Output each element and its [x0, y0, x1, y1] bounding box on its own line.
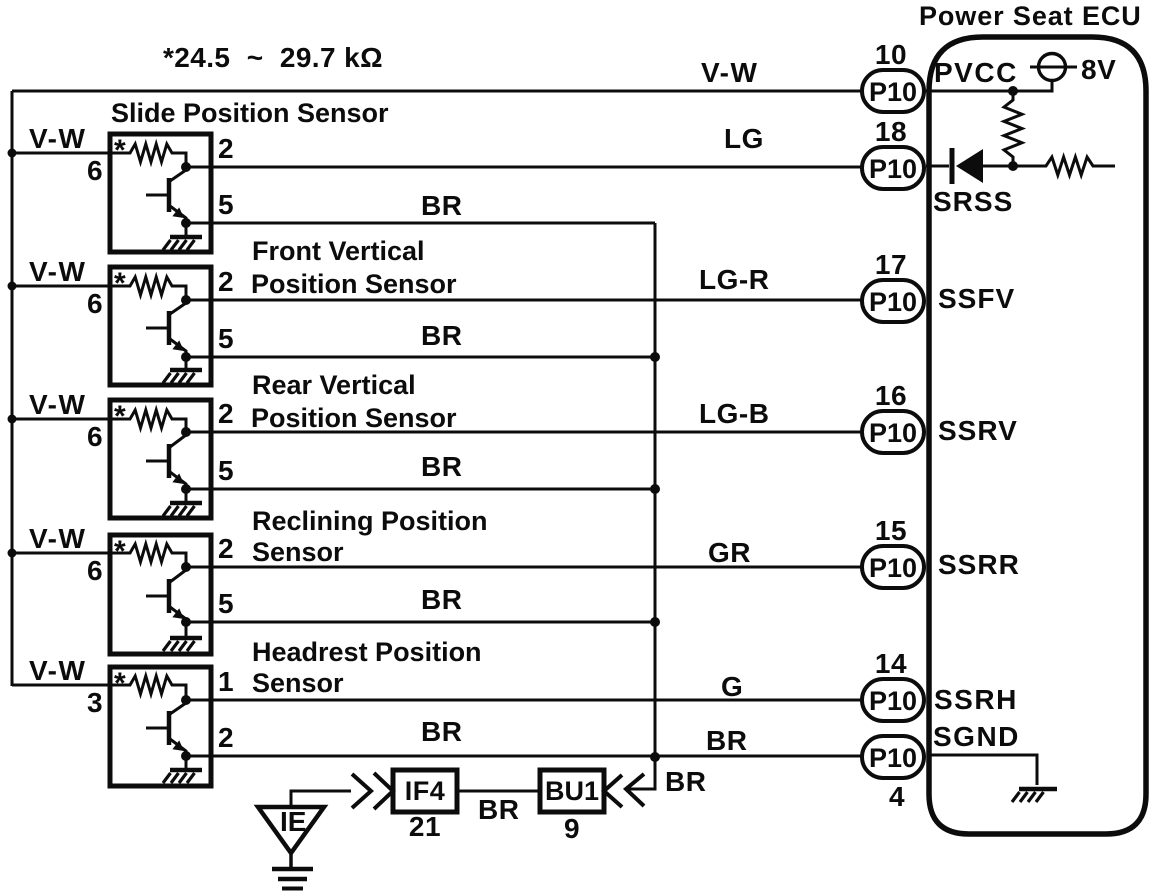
svg-text:BR: BR	[421, 320, 462, 351]
svg-text:5: 5	[218, 189, 234, 220]
svg-text:P10: P10	[869, 287, 917, 317]
svg-text:SSRV: SSRV	[938, 415, 1018, 446]
wire V-W supply bus top	[12, 90, 862, 93]
reclining position sensor box	[110, 535, 211, 654]
front vertical position sensor box	[110, 267, 211, 385]
svg-text:Rear Vertical: Rear Vertical	[252, 370, 416, 400]
connector P10 pin 10	[862, 70, 924, 112]
junction dot pin 5 of slide position sensor	[181, 218, 191, 228]
wiper transistor symbol in reclining position sensor	[146, 570, 186, 622]
potentiometer resistor in front vertical position sensor	[110, 277, 186, 300]
svg-text:2: 2	[218, 398, 234, 429]
svg-text:P10: P10	[869, 77, 917, 107]
wire pin 5 output of front vertical position sensor	[186, 356, 655, 359]
junction connector IF4	[393, 770, 457, 812]
slide position sensor box	[110, 134, 211, 252]
wire pin 1 output of headrest position sensor	[186, 699, 862, 702]
svg-text:2: 2	[218, 722, 234, 753]
wire pin 2 output of reclining position sensor	[186, 566, 862, 569]
svg-text:Position Sensor: Position Sensor	[251, 403, 457, 433]
internal ground of slide position sensor	[185, 223, 188, 236]
wiper transistor symbol in front vertical position sensor	[146, 303, 186, 357]
svg-text:Position Sensor: Position Sensor	[251, 269, 457, 299]
svg-text:SGND: SGND	[933, 721, 1020, 752]
svg-text:BR: BR	[706, 725, 747, 756]
earth ground symbol under IE	[289, 853, 293, 867]
svg-text:Reclining Position: Reclining Position	[252, 506, 488, 536]
svg-text:8V: 8V	[1081, 54, 1116, 85]
internal ground of reclining position sensor	[185, 622, 188, 637]
svg-text:5: 5	[218, 323, 234, 354]
svg-text:*24.5 ~ 29.7 kΩ: *24.5 ~ 29.7 kΩ	[163, 42, 383, 73]
svg-text:V-W: V-W	[701, 57, 758, 88]
junction dot on BR bus	[650, 617, 660, 627]
svg-text:1: 1	[218, 666, 234, 697]
svg-text:P10: P10	[869, 743, 917, 773]
svg-text:SSRH: SSRH	[934, 684, 1018, 715]
series resistor inside ECU	[1013, 157, 1115, 175]
wire SRSS line	[926, 165, 949, 168]
wire PVCC to 8V source	[925, 80, 1052, 91]
svg-text:2: 2	[218, 266, 234, 297]
svg-text:LG-B: LG-B	[699, 398, 769, 429]
pull-up resistor inside ECU	[1004, 91, 1022, 166]
junction dot on left bus at sensor 1	[8, 149, 17, 158]
svg-text:P10: P10	[869, 418, 917, 448]
potentiometer resistor in slide position sensor	[110, 144, 186, 167]
svg-text:18: 18	[875, 116, 907, 147]
svg-text:GR: GR	[708, 537, 751, 568]
wiper transistor symbol in rear vertical position sensor	[146, 435, 186, 489]
connector P10 pin 4	[862, 736, 924, 778]
svg-text:Sensor: Sensor	[252, 537, 344, 567]
svg-text:P10: P10	[869, 686, 917, 716]
svg-text:16: 16	[875, 380, 907, 411]
wire pin 2 output of front vertical position sensor	[186, 299, 862, 302]
svg-text:5: 5	[218, 455, 234, 486]
svg-text:17: 17	[875, 249, 907, 280]
svg-text:V-W: V-W	[29, 256, 86, 287]
svg-text:SSRR: SSRR	[938, 549, 1020, 580]
svg-text:BR: BR	[665, 766, 706, 797]
svg-text:BR: BR	[421, 190, 462, 221]
junction dot pin 2 of front vertical position sensor	[181, 295, 191, 305]
svg-text:G: G	[721, 671, 743, 702]
junction dot on BR bus	[650, 752, 660, 762]
svg-text:21: 21	[409, 811, 441, 842]
svg-text:*: *	[114, 267, 126, 300]
internal ground of front vertical position sensor	[185, 357, 188, 369]
junction dot on left bus at sensor 2	[8, 282, 17, 291]
junction dot pin 2 of reclining position sensor	[181, 562, 191, 572]
wire V-W branch to front vertical position sensor	[12, 285, 110, 288]
svg-text:*: *	[114, 134, 126, 167]
svg-text:BR: BR	[421, 584, 462, 615]
diode SRSS	[950, 148, 955, 184]
svg-text:BR: BR	[421, 716, 462, 747]
svg-text:V-W: V-W	[29, 523, 86, 554]
svg-text:2: 2	[218, 133, 234, 164]
wire pin 5 output of rear vertical position sensor	[186, 488, 655, 491]
junction dot on BR bus	[650, 484, 660, 494]
ground IE triangle	[258, 807, 324, 853]
wire V-W branch to rear vertical position sensor	[12, 418, 110, 421]
svg-text:SRSS: SRSS	[933, 186, 1013, 217]
internal ground of headrest position sensor	[185, 756, 188, 769]
potentiometer resistor in reclining position sensor	[110, 544, 186, 567]
internal ground of rear vertical position sensor	[185, 489, 188, 502]
junction connector BU1	[540, 770, 604, 812]
wire SGND to ECU ground	[928, 755, 1037, 785]
svg-text:IF4: IF4	[405, 776, 446, 806]
svg-text:6: 6	[87, 288, 103, 319]
connector P10 pin 15	[862, 546, 924, 588]
ECU body	[929, 37, 1146, 834]
junction dot on left bus at sensor 4	[8, 549, 17, 558]
svg-text:Slide Position Sensor: Slide Position Sensor	[111, 98, 389, 128]
8V source symbol	[1039, 54, 1066, 81]
svg-text:4: 4	[889, 781, 905, 812]
svg-text:LG-R: LG-R	[699, 264, 769, 295]
connector P10 pin 16	[862, 411, 924, 453]
svg-text:Sensor: Sensor	[252, 668, 344, 698]
rear vertical position sensor box	[110, 400, 211, 518]
connector arrows into IF4	[352, 774, 371, 808]
wire V-W branch to slide position sensor	[12, 152, 110, 155]
svg-text:6: 6	[87, 421, 103, 452]
svg-text:SSFV: SSFV	[938, 283, 1015, 314]
wire V-W branch to headrest position sensor	[12, 684, 110, 687]
svg-text:Front Vertical: Front Vertical	[252, 236, 425, 266]
svg-text:*: *	[114, 400, 126, 433]
svg-text:10: 10	[875, 39, 907, 70]
svg-text:LG: LG	[724, 123, 764, 154]
svg-text:Power Seat ECU: Power Seat ECU	[919, 1, 1142, 31]
ECU internal ground	[1019, 787, 1057, 792]
svg-text:V-W: V-W	[29, 123, 86, 154]
wire pin 2 output of slide position sensor	[186, 166, 862, 169]
wire BR collector bus	[628, 223, 655, 789]
svg-text:6: 6	[87, 555, 103, 586]
potentiometer resistor in rear vertical position sensor	[110, 410, 186, 432]
svg-text:P10: P10	[869, 154, 917, 184]
svg-text:Headrest Position: Headrest Position	[252, 637, 482, 667]
potentiometer resistor in headrest position sensor	[110, 676, 186, 700]
connector P10 pin 17	[862, 280, 924, 322]
svg-text:9: 9	[564, 813, 580, 844]
svg-text:2: 2	[218, 533, 234, 564]
wire pin 2 output of rear vertical position sensor	[186, 431, 862, 434]
svg-text:6: 6	[87, 155, 103, 186]
junction dot pin 1 of headrest position sensor	[181, 695, 191, 705]
svg-text:BU1: BU1	[545, 776, 599, 806]
svg-text:5: 5	[218, 588, 234, 619]
junction dot pin 2 of slide position sensor	[181, 162, 191, 172]
svg-text:BR: BR	[478, 794, 519, 825]
junction dot pin 2 of rear vertical position sensor	[181, 427, 191, 437]
wire pin 5 output of slide position sensor	[186, 222, 655, 225]
wire pin 2 output of headrest position sensor	[186, 755, 862, 758]
wiper transistor symbol in slide position sensor	[146, 170, 186, 223]
junction node at PVCC	[1008, 86, 1018, 96]
junction dot on left bus at sensor 3	[8, 415, 17, 424]
svg-text:14: 14	[875, 648, 907, 679]
svg-text:IE: IE	[280, 806, 306, 837]
junction dot pin 5 of reclining position sensor	[181, 617, 191, 627]
junction node at SRSS	[1008, 161, 1018, 171]
junction dot pin 5 of rear vertical position sensor	[181, 484, 191, 494]
junction dot pin 5 of front vertical position sensor	[181, 352, 191, 362]
junction dot on BR bus	[650, 352, 660, 362]
headrest position sensor box	[110, 667, 211, 786]
svg-text:BR: BR	[421, 451, 462, 482]
svg-text:3: 3	[87, 687, 103, 718]
svg-text:P10: P10	[869, 553, 917, 583]
connector arrows into BU1	[604, 775, 622, 807]
wire IE to IF4	[291, 791, 351, 807]
wire left vertical V-W bus	[11, 91, 14, 686]
wire pin 5 output of reclining position sensor	[186, 621, 655, 624]
wire IF4 to BU1	[457, 790, 540, 793]
svg-text:15: 15	[875, 515, 907, 546]
wire V-W branch to reclining position sensor	[12, 552, 110, 555]
connector P10 pin 14	[862, 679, 924, 721]
connector P10 pin 18	[862, 147, 924, 189]
svg-text:PVCC: PVCC	[934, 57, 1018, 88]
junction dot pin 2 of headrest position sensor	[181, 751, 191, 761]
svg-text:V-W: V-W	[29, 389, 86, 420]
wiper transistor symbol in headrest position sensor	[146, 703, 186, 756]
svg-text:V-W: V-W	[29, 655, 86, 686]
